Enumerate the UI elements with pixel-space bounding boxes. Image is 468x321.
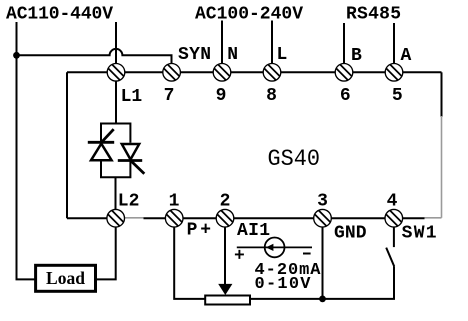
svg-text:SW1: SW1	[402, 223, 437, 243]
current source circle	[265, 238, 285, 258]
svg-text:AC110-440V: AC110-440V	[6, 4, 113, 24]
thyristor Q1 gate	[101, 129, 114, 143]
plus sign	[235, 250, 244, 259]
wire L1 to thyristor block	[115, 81, 117, 124]
svg-text:3: 3	[317, 192, 328, 212]
wire GND down	[322, 227, 324, 299]
thyristor Q1 triangle	[91, 144, 112, 161]
svg-text:AI1: AI1	[237, 221, 270, 241]
junction dot GND/bottom rail	[319, 296, 326, 303]
terminal 6	[335, 64, 353, 82]
thyristor block frame	[101, 124, 130, 178]
wire L lead to terminal 8	[271, 21, 273, 64]
wire thyristor block to L2	[115, 177, 117, 209]
svg-text:6: 6	[340, 86, 351, 106]
svg-text:0-10V: 0-10V	[255, 275, 312, 294]
svg-text:L2: L2	[118, 192, 140, 212]
terminal 2	[216, 209, 234, 227]
minus sign	[303, 253, 311, 255]
wire RS485 A lead to terminal 5	[393, 23, 395, 63]
terminal 8	[263, 64, 281, 82]
svg-text:Load: Load	[46, 268, 85, 288]
terminal 1	[165, 209, 183, 227]
svg-text:L: L	[277, 45, 288, 65]
current source arrow head	[266, 244, 274, 251]
wire AC line2 lead to L1	[115, 22, 117, 63]
switch SW1 blade	[386, 248, 394, 267]
junction dot on line1	[13, 52, 20, 59]
svg-text:AC100-240V: AC100-240V	[195, 4, 303, 24]
GS40 box outline	[67, 71, 442, 73]
terminal 4	[385, 209, 403, 227]
terminal 7	[163, 64, 181, 82]
svg-text:4: 4	[387, 192, 398, 212]
svg-text:8: 8	[266, 86, 277, 106]
current source leads	[237, 246, 312, 248]
wire SYN from line1 with hop over line2 to terminal 7	[17, 49, 172, 64]
terminal L1	[107, 64, 125, 82]
wire RS485 B lead to terminal 6	[343, 23, 345, 63]
thyristor Q2 gate	[130, 160, 144, 174]
wire AC line1 lead (left vertical down to Load)	[17, 22, 36, 279]
wire terminal 4 to switch	[393, 227, 395, 247]
potentiometer body	[205, 296, 250, 305]
thyristor Q2 anode bar	[118, 159, 142, 162]
svg-text:5: 5	[392, 86, 403, 106]
svg-text:SYN: SYN	[178, 45, 211, 65]
svg-text:1: 1	[169, 192, 180, 212]
svg-text:L1: L1	[121, 87, 143, 107]
wire L2 to Load	[96, 227, 116, 279]
wire pot wiper from terminal 2	[224, 227, 226, 285]
svg-text:9: 9	[216, 86, 227, 106]
wire terminal1 down to potentiometer	[174, 227, 205, 299]
thyristor Q2 (right, conducting down) triangle	[122, 144, 139, 160]
terminal 5	[385, 64, 403, 82]
terminal 3	[314, 209, 332, 227]
svg-text:GND: GND	[334, 223, 367, 243]
svg-text:A: A	[401, 46, 412, 66]
svg-text:GS40: GS40	[268, 146, 321, 173]
svg-text:N: N	[227, 45, 238, 65]
svg-text:2: 2	[220, 192, 231, 212]
svg-text:B: B	[351, 46, 362, 66]
Load box	[36, 265, 96, 291]
wire pot to GND node and switch	[250, 266, 394, 299]
wire N lead to terminal 9	[221, 21, 223, 64]
svg-text:7: 7	[164, 86, 175, 106]
terminal L2	[107, 209, 125, 227]
thyristor Q1 (left, conducting up) cathode bar	[88, 141, 114, 144]
pot wiper arrow head	[218, 284, 232, 295]
svg-text:RS485: RS485	[346, 4, 401, 24]
terminal 9	[213, 64, 231, 82]
